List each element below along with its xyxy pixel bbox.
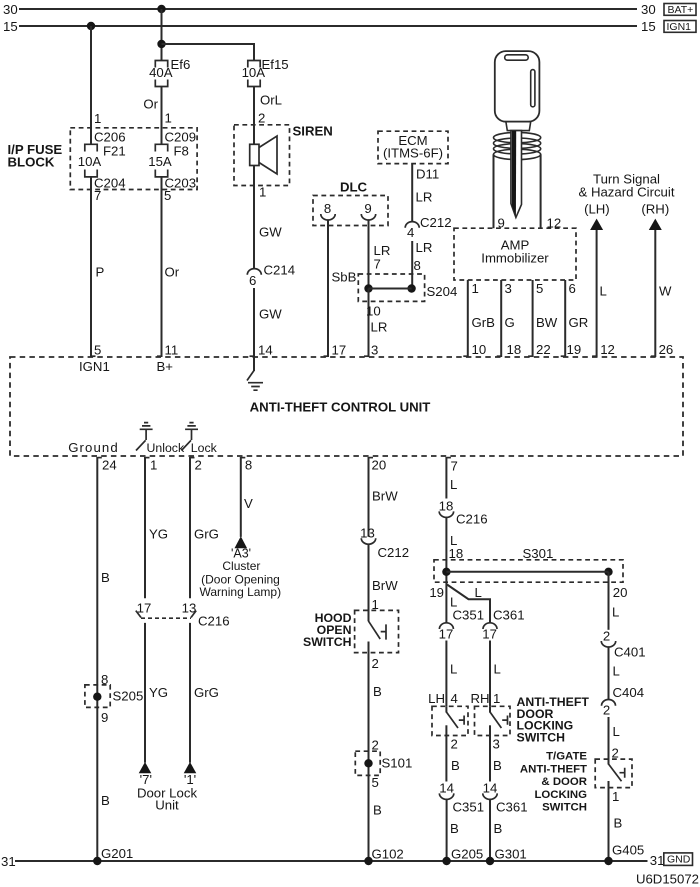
svg-text:T/GATE: T/GATE <box>546 751 587 763</box>
svg-text:YG: YG <box>149 685 168 700</box>
svg-text:SIREN: SIREN <box>293 124 333 139</box>
IGN1 terminal box <box>664 21 696 33</box>
pin 18 <box>497 355 502 357</box>
wire ECM D11 <box>411 164 413 222</box>
svg-text:7: 7 <box>451 459 458 474</box>
splice S301 <box>434 560 623 582</box>
svg-text:3: 3 <box>505 281 512 296</box>
t/gate switch box <box>595 759 632 788</box>
svg-text:2: 2 <box>195 458 202 473</box>
pin 7 <box>446 457 451 459</box>
svg-text:9: 9 <box>101 710 108 725</box>
svg-text:C216: C216 <box>198 614 230 629</box>
connector C212 pin 4 <box>405 222 419 228</box>
svg-text:Cluster: Cluster <box>222 559 260 573</box>
fuse Ef6 40A <box>155 61 167 87</box>
svg-text:19: 19 <box>429 585 444 600</box>
svg-text:30: 30 <box>641 2 656 17</box>
svg-text:GR: GR <box>569 315 589 330</box>
svg-text:8: 8 <box>414 258 421 273</box>
LH door locking switch <box>432 706 468 735</box>
svg-text:SbB: SbB <box>332 270 357 285</box>
svg-text:3: 3 <box>493 737 500 752</box>
svg-text:GW: GW <box>259 225 282 240</box>
svg-text:S204: S204 <box>427 284 458 299</box>
svg-text:ANTI-THEFT CONTROL UNIT: ANTI-THEFT CONTROL UNIT <box>250 400 431 415</box>
svg-text:C209: C209 <box>165 130 197 145</box>
svg-text:C351: C351 <box>453 608 485 623</box>
svg-text:LR: LR <box>416 190 433 205</box>
svg-text:C212: C212 <box>378 545 410 560</box>
svg-text:1: 1 <box>612 789 619 804</box>
wire Ef6 to fuse F8 <box>161 87 163 145</box>
junction on rail 15 <box>87 22 95 30</box>
svg-text:4: 4 <box>451 691 458 706</box>
svg-text:19: 19 <box>567 342 582 357</box>
ECM box <box>378 131 448 163</box>
svg-text:Ground: Ground <box>68 440 119 455</box>
lock switch with ground <box>181 423 198 451</box>
wire AMP6 GR to unit pin 19 <box>564 280 566 357</box>
wire Ef15 to siren <box>253 87 255 145</box>
svg-text:(ITMS-6F): (ITMS-6F) <box>383 146 443 161</box>
svg-text:10: 10 <box>366 304 381 319</box>
svg-text:2: 2 <box>258 111 265 126</box>
wire barrel right to AMP pin 12 <box>540 154 542 228</box>
svg-text:2: 2 <box>603 629 610 644</box>
anti-theft control unit box <box>10 357 683 456</box>
wire B: hood switch to G102 <box>368 642 370 862</box>
svg-text:B: B <box>494 821 503 836</box>
rail 15 (IGN1) <box>19 25 637 27</box>
svg-text:5: 5 <box>94 343 101 358</box>
wire AMP5 BW to unit pin 22 <box>532 280 534 357</box>
svg-text:17: 17 <box>332 343 347 358</box>
svg-text:1: 1 <box>150 458 157 473</box>
svg-text:C404: C404 <box>613 685 645 700</box>
svg-text:B: B <box>373 803 382 818</box>
BAT+ terminal box <box>664 4 696 16</box>
svg-text:IGN1: IGN1 <box>79 359 110 374</box>
pin 10 <box>463 355 468 357</box>
fuse Ef15 10A <box>248 61 260 87</box>
key barrel coil rings <box>493 132 540 142</box>
RH arrow <box>649 219 662 230</box>
svg-text:14: 14 <box>483 781 498 796</box>
wire GrG: pin 2 down <box>189 457 191 598</box>
svg-text:4: 4 <box>407 225 414 240</box>
svg-text:B: B <box>451 758 460 773</box>
svg-text:IGN1: IGN1 <box>667 21 692 33</box>
svg-text:(LH): (LH) <box>584 202 610 217</box>
svg-text:2: 2 <box>603 703 610 718</box>
wire LR to splice S204 <box>411 241 413 289</box>
connector C214 pin 6 <box>247 269 261 275</box>
svg-text:26: 26 <box>659 342 674 357</box>
svg-text:C351: C351 <box>453 800 485 815</box>
svg-text:L: L <box>494 662 501 677</box>
svg-text:Unlock: Unlock <box>147 441 185 455</box>
cluster arrow A3 <box>235 536 248 548</box>
pin 17 <box>324 355 329 357</box>
wire BrW: pin 20 down <box>368 457 370 537</box>
wire BrW to hood switch <box>368 544 370 621</box>
pin 14 with internal ground <box>250 355 255 357</box>
svg-text:B: B <box>101 793 110 808</box>
svg-text:F21: F21 <box>103 144 126 159</box>
svg-text:17: 17 <box>137 600 152 615</box>
svg-text:30: 30 <box>3 2 18 17</box>
svg-text:10A: 10A <box>78 154 102 169</box>
pin 26 <box>651 355 656 357</box>
svg-text:7: 7 <box>374 257 381 272</box>
pin 1 <box>145 457 150 459</box>
svg-text:LOCKING: LOCKING <box>534 789 587 801</box>
I/P fuse block box <box>70 128 197 190</box>
svg-text:BrW: BrW <box>372 489 398 504</box>
svg-text:2: 2 <box>451 737 458 752</box>
svg-text:GrG: GrG <box>194 527 219 542</box>
svg-text:S205: S205 <box>113 689 144 704</box>
svg-text:RH: RH <box>470 691 489 706</box>
svg-text:BW: BW <box>536 315 558 330</box>
svg-text:C401: C401 <box>614 645 646 660</box>
svg-text:7: 7 <box>94 188 101 203</box>
wire P: F21 to unit pin 5 <box>90 177 92 357</box>
pin 2 <box>190 457 195 459</box>
svg-text:24: 24 <box>102 458 117 473</box>
junction node <box>157 40 165 48</box>
junction on rail 30 <box>157 5 165 13</box>
svg-text:BrW: BrW <box>372 578 398 593</box>
svg-text:G301: G301 <box>495 847 527 862</box>
wire YG to door lock unit <box>144 623 146 763</box>
wire L: pin 7 down <box>445 457 447 499</box>
branch wire to C361 <box>447 585 490 623</box>
svg-text:1: 1 <box>94 111 101 126</box>
svg-text:3: 3 <box>371 343 378 358</box>
wire L to t/gate switch <box>608 717 610 765</box>
wire B to G301 <box>489 800 491 862</box>
svg-text:C216: C216 <box>456 512 488 527</box>
wire B to G405 <box>608 781 610 861</box>
wire branch to Ef15 <box>162 44 255 61</box>
svg-text:ANTI-THEFT: ANTI-THEFT <box>520 763 587 775</box>
hood open switch <box>355 610 399 652</box>
svg-text:1: 1 <box>493 691 500 706</box>
wire L to C404 <box>608 647 610 700</box>
wire S204 to unit pin 3 <box>368 289 370 358</box>
svg-text:GND: GND <box>667 854 691 866</box>
wire GrG to door lock unit <box>189 623 191 763</box>
svg-text:31: 31 <box>1 854 16 869</box>
svg-text:8: 8 <box>245 458 252 473</box>
svg-text:12: 12 <box>600 342 615 357</box>
svg-text:8: 8 <box>324 201 331 216</box>
wire DLC8 to unit pin 17 <box>327 220 329 357</box>
wire YG: pin 1 down <box>144 457 146 598</box>
svg-text:GW: GW <box>259 307 282 322</box>
svg-text:2: 2 <box>372 656 379 671</box>
svg-text:B: B <box>493 758 502 773</box>
svg-text:C206: C206 <box>94 130 126 145</box>
svg-text:L: L <box>612 605 619 620</box>
svg-text:BAT+: BAT+ <box>668 4 694 16</box>
svg-text:9: 9 <box>364 201 371 216</box>
svg-text:13: 13 <box>360 526 375 541</box>
svg-text:1: 1 <box>472 281 479 296</box>
unlock switch with ground <box>136 423 153 451</box>
pin 24 <box>97 457 102 459</box>
svg-text:14: 14 <box>439 781 454 796</box>
svg-text:Warning Lamp): Warning Lamp) <box>200 585 282 599</box>
svg-text:40A: 40A <box>149 65 173 80</box>
svg-text:11: 11 <box>165 343 179 358</box>
wire rail15 down to fuse F21 <box>90 26 92 144</box>
svg-text:6: 6 <box>569 281 576 296</box>
svg-text:2: 2 <box>372 738 379 753</box>
svg-text:15: 15 <box>3 19 18 34</box>
svg-text:14: 14 <box>258 343 273 358</box>
svg-text:Unit: Unit <box>155 798 179 813</box>
svg-text:S101: S101 <box>382 756 413 771</box>
svg-text:15A: 15A <box>148 154 172 169</box>
svg-text:SWITCH: SWITCH <box>303 635 352 649</box>
rail 30 (BAT+) <box>19 8 637 10</box>
svg-text:BLOCK: BLOCK <box>8 155 55 170</box>
svg-text:& Hazard Circuit: & Hazard Circuit <box>578 185 674 200</box>
svg-text:1: 1 <box>259 185 266 200</box>
wire DLC9 to splice S204 <box>368 220 370 289</box>
wire V: pin 8 to cluster <box>240 457 242 537</box>
svg-text:L: L <box>613 724 620 739</box>
pin 8 <box>241 457 246 459</box>
door lock unit arrows <box>139 762 152 773</box>
svg-text:6: 6 <box>249 273 256 288</box>
svg-text:D11: D11 <box>416 167 439 182</box>
svg-text:20: 20 <box>372 458 387 473</box>
svg-text:Ef15: Ef15 <box>262 57 289 72</box>
svg-text:C361: C361 <box>496 800 528 815</box>
svg-text:Immobilizer: Immobilizer <box>481 251 549 266</box>
svg-text:18: 18 <box>449 546 464 561</box>
siren box <box>234 125 290 186</box>
pin 5 <box>91 355 96 357</box>
svg-text:1: 1 <box>165 111 172 126</box>
LH arrow <box>590 219 603 230</box>
svg-text:5: 5 <box>536 281 543 296</box>
svg-text:Lock: Lock <box>191 441 218 455</box>
svg-text:B: B <box>614 816 623 831</box>
svg-text:LR: LR <box>416 240 433 255</box>
pin 12 <box>592 355 597 357</box>
svg-text:L: L <box>475 585 482 600</box>
svg-text:18: 18 <box>439 499 454 514</box>
wire L to RH door switch <box>489 641 491 707</box>
svg-text:G: G <box>505 315 515 330</box>
ignition key head <box>495 51 540 122</box>
svg-text:G201: G201 <box>101 846 133 861</box>
ground junction dots <box>93 857 101 865</box>
pin 22 <box>528 355 533 357</box>
RH door locking switch <box>475 706 511 735</box>
svg-text:C214: C214 <box>264 263 296 278</box>
wire L: S301 right to C401 <box>608 572 610 630</box>
svg-text:17: 17 <box>482 627 497 642</box>
key neck <box>506 122 531 131</box>
svg-text:YG: YG <box>149 527 168 542</box>
svg-text:V: V <box>244 496 253 511</box>
pin 19 <box>561 355 566 357</box>
svg-text:31: 31 <box>650 853 665 868</box>
fuse F8 15A <box>155 144 167 177</box>
svg-text:G405: G405 <box>612 843 644 858</box>
pin 3 <box>364 355 369 357</box>
fuse F21 10A <box>85 144 97 177</box>
svg-text:DLC: DLC <box>340 180 368 195</box>
splice S101 <box>355 751 380 775</box>
wire AMP3 G to unit pin 18 <box>500 280 502 357</box>
svg-text:L: L <box>450 477 457 492</box>
svg-text:B: B <box>101 570 110 585</box>
svg-text:Or: Or <box>165 265 180 280</box>
svg-text:C361: C361 <box>493 608 525 623</box>
svg-text:17: 17 <box>439 627 454 642</box>
wire B: pin 24 to G201 <box>96 457 98 861</box>
rail 31 ground <box>15 860 648 862</box>
svg-text:GrB: GrB <box>472 315 496 330</box>
svg-text:B: B <box>373 684 382 699</box>
svg-text:Ef6: Ef6 <box>171 57 191 72</box>
svg-text:C212: C212 <box>420 215 452 230</box>
svg-text:W: W <box>659 284 672 299</box>
svg-text:L: L <box>450 662 457 677</box>
svg-text:U6D15072: U6D15072 <box>636 872 699 887</box>
wire AMP1 GrB to unit pin 10 <box>467 280 469 357</box>
svg-text:S301: S301 <box>523 546 554 561</box>
svg-text:LR: LR <box>371 320 388 335</box>
wire B to G205 <box>446 800 448 862</box>
pin 20 <box>369 457 374 459</box>
svg-text:LH: LH <box>428 691 445 706</box>
svg-text:B: B <box>450 821 459 836</box>
wire barrel left to AMP pin 9 <box>493 154 495 228</box>
svg-text:L: L <box>613 664 620 679</box>
wire GW to unit pin 14 <box>253 288 255 357</box>
svg-text:22: 22 <box>536 342 551 357</box>
svg-text:L: L <box>600 284 607 299</box>
svg-text:G205: G205 <box>451 847 483 862</box>
wire L to LH door switch <box>445 641 447 707</box>
svg-text:& DOOR: & DOOR <box>541 776 587 788</box>
svg-text:P: P <box>96 265 105 280</box>
svg-text:G102: G102 <box>372 847 404 862</box>
svg-text:B+: B+ <box>157 359 174 374</box>
svg-text:OrL: OrL <box>260 93 282 108</box>
svg-text:(RH): (RH) <box>641 202 669 217</box>
svg-text:SWITCH: SWITCH <box>517 730 566 744</box>
pin 11 <box>157 355 162 357</box>
wire L to S301 <box>445 518 447 623</box>
wire Or: F8 to unit pin 11 <box>161 177 163 357</box>
svg-text:GrG: GrG <box>194 685 219 700</box>
svg-text:10: 10 <box>472 342 487 357</box>
svg-text:Or: Or <box>143 97 158 112</box>
svg-text:18: 18 <box>507 342 522 357</box>
svg-text:F8: F8 <box>174 144 189 159</box>
wire rail30 down to Ef6 <box>161 9 163 61</box>
AMP immobilizer box <box>454 228 576 280</box>
svg-text:20: 20 <box>613 585 628 600</box>
svg-text:5: 5 <box>372 775 379 790</box>
GND terminal box <box>664 853 693 866</box>
key blade <box>511 131 522 218</box>
svg-text:SWITCH: SWITCH <box>542 802 587 814</box>
siren speaker symbol <box>250 144 259 165</box>
svg-text:5: 5 <box>164 188 171 203</box>
svg-text:15: 15 <box>641 19 656 34</box>
